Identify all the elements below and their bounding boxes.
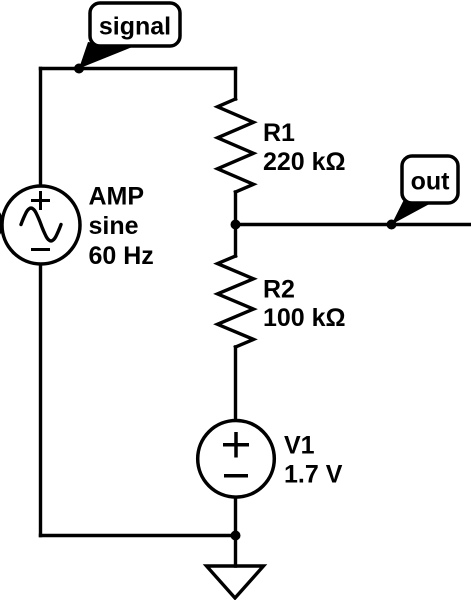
wire R2 to V1 [234,347,237,421]
svg-text:220 kΩ: 220 kΩ [263,148,346,176]
V1 minus sign [224,474,248,478]
svg-text:R1: R1 [263,119,295,147]
svg-text:out: out [411,168,451,196]
svg-text:V1: V1 [284,432,315,460]
svg-text:1.7 V: 1.7 V [284,461,343,489]
callout box out [402,156,458,203]
svg-text:R2: R2 [263,276,295,304]
ground [207,566,264,598]
AC source AMP circle [2,186,80,264]
AC source plus sign [31,191,50,210]
wire out net [236,223,471,226]
svg-text:sine: sine [89,212,139,240]
svg-text:signal: signal [99,13,171,41]
wire top horizontal (signal net) [41,67,236,70]
V1 plus sign [223,432,249,458]
svg-text:100 kΩ: 100 kΩ [263,304,346,332]
svg-text:AMP: AMP [89,183,145,211]
wire left rail lower [39,264,42,536]
callout tail out [392,199,429,225]
wire R1 to middle node [234,192,237,225]
svg-text:60 Hz: 60 Hz [89,242,154,270]
junction node out [387,220,397,230]
junction node signal [74,64,84,74]
callout tail signal [79,42,131,69]
AC source sine wave [21,208,61,241]
wire V1 to bottom node [234,497,237,566]
wire left rail upper [39,69,42,187]
partial node at left edge [0,211,3,236]
wire right rail top [234,69,237,100]
junction node middle [231,220,241,230]
resistor R2 [218,256,254,347]
wire middle node to R2 [234,225,237,257]
wire bottom horizontal [41,534,236,537]
junction node bottom [231,531,241,541]
resistor R1 [218,99,254,192]
voltage source V1 circle [198,421,275,498]
callout box signal [90,3,180,46]
AC source minus sign [31,248,50,251]
